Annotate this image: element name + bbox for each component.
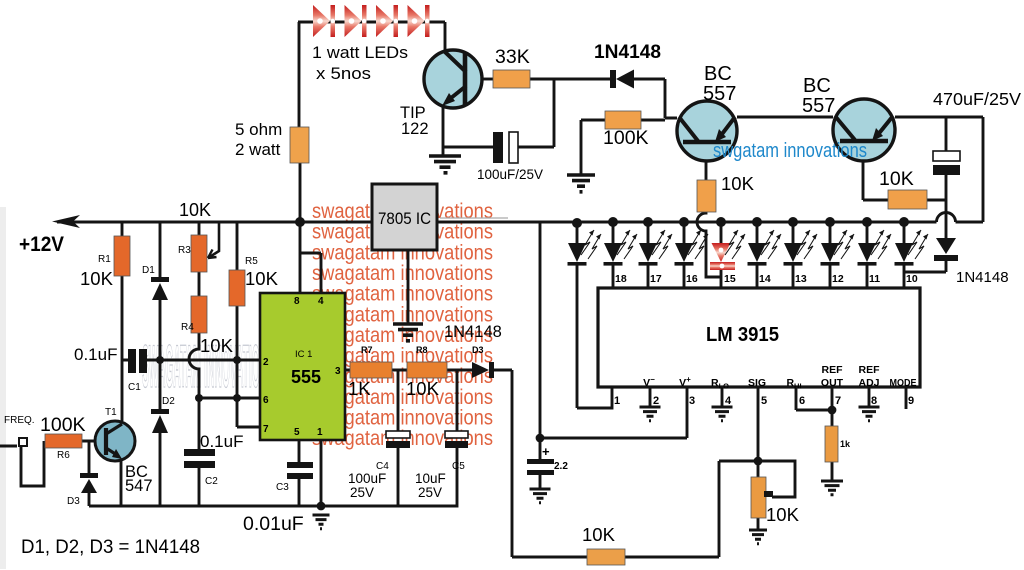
resistor 33K — [493, 70, 530, 88]
LED bar graph D18 — [568, 230, 602, 266]
wire TIP122 base to 33K — [482, 78, 493, 81]
svg-text:9: 9 — [908, 395, 914, 407]
svg-text:7805 IC: 7805 IC — [378, 209, 431, 228]
node ground rail junction — [317, 502, 326, 511]
IC1 555 timer — [260, 293, 345, 440]
svg-text:1N4148: 1N4148 — [444, 323, 502, 341]
capacitor C3 0.01uF — [287, 462, 313, 479]
svg-text:14: 14 — [759, 273, 771, 285]
LED bar graph pin17 — [639, 230, 673, 266]
svg-text:OUT: OUT — [821, 377, 844, 389]
svg-text:557: 557 — [802, 95, 835, 117]
svg-text:100uF: 100uF — [348, 471, 386, 486]
resistor R8 10K — [407, 362, 447, 378]
wire R7R8 junction to C4 — [397, 370, 400, 431]
svg-text:16: 16 — [686, 273, 698, 285]
svg-text:REF: REF — [859, 364, 881, 376]
node LED rail junctions — [572, 218, 582, 228]
svg-text:FREQ.: FREQ. — [4, 415, 35, 426]
wire 5ohm bottom — [299, 163, 302, 222]
LED string D-LED2 — [345, 5, 367, 37]
wire 555 pin1 down — [320, 440, 323, 506]
transistor TIP122 — [424, 50, 482, 108]
svg-text:R5: R5 — [245, 256, 258, 267]
wire C1 row to 555 pin2 — [147, 359, 260, 362]
capacitor C5 10uF — [445, 431, 468, 448]
LED string D-LED1 — [313, 5, 335, 37]
svg-text:R4: R4 — [181, 322, 194, 333]
stray underline artifact — [440, 217, 508, 219]
svg-text:REF: REF — [822, 364, 844, 376]
svg-text:6: 6 — [263, 395, 269, 406]
resistor 10K Q1 — [697, 180, 716, 212]
resistor R7 1K — [350, 362, 392, 378]
capacitor 470uF/25V — [933, 151, 960, 175]
svg-text:4: 4 — [318, 296, 324, 307]
LED bar graph pin15 red — [710, 230, 745, 270]
svg-text:C3: C3 — [276, 482, 289, 493]
svg-text:7: 7 — [835, 395, 841, 407]
svg-text:8: 8 — [294, 296, 300, 307]
svg-text:10K: 10K — [879, 168, 914, 190]
label LM3915 bottom pin numbers — [614, 395, 914, 407]
wire pin4 stub — [721, 387, 724, 407]
svg-text:10K: 10K — [80, 268, 114, 289]
svg-text:D3: D3 — [67, 496, 80, 507]
wire 7805 ground pin — [407, 250, 410, 323]
wire pin6 to pin7 — [796, 387, 832, 410]
LED bar graph D17 pin18 — [604, 230, 638, 266]
svg-text:10K: 10K — [721, 173, 755, 194]
svg-text:R1: R1 — [98, 254, 111, 265]
resistor R3 10K pot — [191, 235, 207, 272]
node C1 row R5 junction — [233, 356, 241, 364]
wire D1-D2 column — [159, 278, 162, 506]
LED bar graph pin16 — [675, 230, 709, 266]
wire TIP122 emitter to ground and 100uF — [443, 105, 493, 155]
wire pin8 stub — [868, 387, 871, 407]
svg-text:R7: R7 — [361, 345, 373, 355]
transistor Q2 BC557 — [833, 99, 895, 161]
wire bottom 10K to SIG node — [625, 461, 758, 557]
wire BC557 Q2 right to corner — [895, 117, 983, 222]
wire pin7 to 1k — [831, 387, 834, 481]
node LED anode rail — [437, 213, 983, 223]
pot wiper tab — [764, 491, 773, 497]
svg-text:10uF: 10uF — [415, 471, 446, 486]
wire R5 top — [236, 222, 239, 270]
svg-text:1: 1 — [317, 427, 323, 438]
node +12V rail wire — [57, 221, 372, 224]
wire R3 top — [198, 222, 201, 235]
svg-text:2: 2 — [653, 395, 659, 407]
svg-text:5 ohm: 5 ohm — [235, 120, 282, 139]
resistor 5ohm — [290, 127, 309, 163]
svg-text:557: 557 — [703, 83, 736, 105]
LED bar graph pin13 — [784, 230, 818, 266]
svg-text:100K: 100K — [40, 414, 86, 436]
svg-text:13: 13 — [795, 273, 807, 285]
svg-text:0.1uF: 0.1uF — [200, 432, 243, 451]
node C1 row D1 junction — [156, 356, 164, 364]
diode D1 — [151, 277, 169, 300]
wire pin1 to LED1 cathode — [577, 265, 612, 408]
wire BC557 Q1 base lead down — [705, 142, 708, 180]
wire D3 column — [88, 441, 91, 506]
svg-text:BC: BC — [803, 75, 831, 97]
svg-text:C1: C1 — [128, 382, 141, 393]
node V+ junction — [536, 434, 545, 443]
ground 7805 — [393, 324, 423, 341]
wire 100K top right — [641, 119, 665, 122]
svg-text:122: 122 — [401, 120, 429, 138]
node SIG junction — [754, 457, 763, 466]
svg-text:swgatam innovations: swgatam innovations — [713, 140, 867, 162]
svg-text:12: 12 — [832, 273, 844, 285]
diode D3 output 1N4148 — [472, 362, 494, 378]
WATERMARKS — [312, 200, 493, 450]
svg-text:2 watt: 2 watt — [235, 140, 281, 159]
ground 2.2uF — [530, 489, 551, 503]
svg-text:1: 1 — [614, 395, 620, 407]
svg-text:0.1uF: 0.1uF — [74, 345, 117, 364]
node +12V arrow — [52, 215, 80, 228]
svg-text:+12V: +12V — [19, 233, 64, 256]
svg-text:10K: 10K — [179, 200, 211, 220]
svg-text:x 5nos: x 5nos — [316, 65, 371, 83]
wire 470uF bottom through rail to 1N4148 — [945, 175, 948, 238]
svg-text:8: 8 — [871, 395, 877, 407]
svg-text:15: 15 — [724, 273, 736, 285]
capacitor 2.2uF — [527, 459, 554, 475]
LED bar graph pin10 — [895, 230, 929, 266]
wire R6 to BC547 base — [82, 440, 104, 443]
node ground rail bottom — [89, 448, 457, 506]
svg-text:5: 5 — [294, 427, 300, 438]
svg-text:4: 4 — [725, 395, 732, 407]
svg-text:6: 6 — [799, 395, 805, 407]
svg-text:10K: 10K — [245, 268, 279, 289]
svg-text:D3: D3 — [472, 345, 484, 355]
svg-text:T1: T1 — [105, 407, 117, 418]
svg-text:1K: 1K — [348, 378, 371, 399]
capacitor C1 0.1uF — [128, 349, 147, 373]
svg-text:BC: BC — [704, 63, 732, 85]
transistor T1 BC547 — [95, 421, 135, 461]
svg-text:10K: 10K — [582, 524, 616, 545]
wire FREQ input — [0, 445, 17, 448]
svg-text:D1, D2, D3 = 1N4148: D1, D2, D3 = 1N4148 — [21, 537, 200, 558]
wire pin5 SIG column — [757, 387, 760, 477]
pot R3 wiper arrow — [208, 250, 217, 259]
svg-text:547: 547 — [125, 477, 153, 495]
svg-text:470uF/25V: 470uF/25V — [933, 89, 1021, 109]
svg-text:R3: R3 — [178, 245, 191, 256]
svg-text:33K: 33K — [495, 46, 530, 68]
wire 100uF to 33K junction — [518, 79, 554, 147]
wire LED column stubs into IC — [613, 265, 904, 288]
transistor Q1 BC557 — [677, 101, 737, 161]
wire 1N4148 cathode to pin10 — [904, 261, 946, 272]
LED bar graph pin14 — [748, 230, 782, 266]
svg-text:5: 5 — [761, 395, 767, 407]
resistor 10K pot SIG — [751, 477, 766, 518]
LED string D-LED3 — [376, 5, 398, 37]
svg-text:ADJ: ADJ — [858, 377, 879, 389]
svg-text:10K: 10K — [766, 504, 800, 525]
wire V+ node column — [540, 222, 687, 459]
ground 555 pin1 — [313, 515, 330, 529]
label LM3915 top pin numbers — [615, 273, 918, 285]
svg-text:1k: 1k — [840, 439, 851, 449]
svg-text:25V: 25V — [350, 485, 374, 500]
wire R1 bottom to C1 node and BC547 collector — [122, 276, 128, 421]
resistor 10K bottom — [587, 549, 625, 565]
resistor R5 10K — [229, 270, 245, 306]
ground 1k — [821, 481, 843, 495]
diode D2 — [151, 409, 169, 433]
wire 33K to diode junction — [530, 78, 611, 81]
wire 5ohm top to LED string — [298, 22, 445, 130]
wire 555 pin8 pin4 supply — [300, 222, 321, 293]
svg-text:IC 1: IC 1 — [295, 349, 312, 360]
diode D3 — [80, 473, 98, 493]
svg-text:25V: 25V — [418, 485, 442, 500]
svg-text:11: 11 — [869, 273, 880, 285]
wire C3 column 555 pin5 — [298, 440, 301, 506]
svg-text:1N4148: 1N4148 — [956, 269, 1009, 286]
svg-text:100uF/25V: 100uF/25V — [477, 166, 544, 182]
wire C4 bottom — [397, 448, 400, 506]
label LM3915 pin names — [643, 364, 916, 391]
svg-text:18: 18 — [615, 273, 627, 285]
wire 470uF top tap — [945, 117, 948, 151]
svg-text:R6: R6 — [57, 450, 70, 461]
svg-text:C5: C5 — [452, 461, 465, 472]
wire R3-R4 link — [198, 272, 201, 296]
wire SIG wiper loop — [758, 461, 795, 497]
wire LED column stubs top — [577, 222, 904, 243]
LED bar graph pin11 — [858, 230, 892, 266]
wire BC557 Q1 to Q2 — [737, 116, 833, 119]
wire 100K top left to ground — [581, 120, 605, 174]
svg-text:MODE: MODE — [890, 377, 917, 389]
wire pin9 stub — [905, 387, 908, 409]
svg-text:0.01uF: 0.01uF — [243, 513, 304, 535]
ground 100K — [567, 175, 595, 192]
svg-text:100K: 100K — [603, 127, 649, 149]
wire BC547 emitter down — [120, 459, 123, 506]
svg-text:3: 3 — [335, 366, 341, 377]
resistor R6 100K — [45, 434, 82, 448]
wire C5 tap — [456, 370, 459, 431]
label 555 pins — [263, 296, 341, 438]
svg-text:2: 2 — [263, 357, 269, 368]
svg-text:1 watt LEDs: 1 watt LEDs — [312, 44, 408, 62]
resistor 100K top — [605, 111, 641, 129]
svg-text:SIG: SIG — [748, 377, 766, 389]
svg-text:17: 17 — [650, 273, 662, 285]
svg-text:C2: C2 — [205, 476, 218, 487]
svg-text:10K: 10K — [200, 335, 234, 356]
svg-text:swagatam innovations: swagatam innovations — [312, 262, 493, 285]
wire 2.2uF to ground — [539, 475, 542, 489]
wire R5 bottom to pin6 pin7 — [237, 306, 260, 427]
ground pot — [749, 530, 767, 544]
wire pot to ground — [757, 518, 760, 530]
wire pin2 stub — [649, 387, 652, 407]
node pin6 pin7 junction — [828, 406, 837, 415]
wire diode to BC557 base node — [634, 79, 677, 118]
svg-text:10: 10 — [906, 273, 918, 285]
svg-text:D1: D1 — [142, 265, 155, 276]
svg-text:555: 555 — [291, 367, 321, 387]
resistor R1 10K — [114, 236, 130, 276]
terminal FREQ square — [19, 438, 27, 446]
IC 7805 — [372, 184, 437, 250]
resistor 10K Q2 — [888, 190, 927, 209]
node pin6 row junctions — [195, 394, 203, 402]
wire R1 top — [121, 222, 124, 236]
capacitor C2 0.1uF — [184, 449, 215, 468]
diode 1N4148 top — [610, 70, 634, 89]
wire 10K Q1 hop over rail to pin15 — [697, 212, 721, 277]
ground TIP122 emitter — [429, 156, 461, 173]
wire D3 out down to bottom 10K — [493, 370, 587, 557]
LED bar graph pin12 — [821, 230, 855, 266]
wire D1 top — [159, 222, 162, 277]
wire 10K Q2 right — [927, 199, 946, 202]
wire R3 wiper tap — [208, 222, 219, 258]
diode 1N4148 right — [934, 238, 958, 261]
wire R4 bottom hop over C1 row — [189, 333, 199, 398]
ground pin8 — [859, 407, 880, 421]
wire BC557 Q2 base lead to 10K — [863, 141, 888, 200]
svg-text:2.2: 2.2 — [554, 461, 568, 472]
node 5ohm rail junction — [295, 217, 305, 227]
LED string D-LED4 — [408, 5, 430, 37]
svg-text:7: 7 — [263, 424, 269, 435]
ground pin4 — [712, 407, 733, 421]
capacitor 100uF/25V — [493, 132, 518, 163]
svg-text:+: + — [542, 444, 550, 459]
svg-text:10K: 10K — [406, 378, 440, 399]
capacitor C4 100uF — [386, 431, 410, 448]
resistor R4 — [191, 296, 207, 333]
wire square pulse to R6 — [21, 441, 44, 486]
wire pin6 row — [199, 397, 260, 400]
svg-text:3: 3 — [689, 395, 695, 407]
svg-text:D2: D2 — [162, 396, 175, 407]
svg-text:1N4148: 1N4148 — [594, 41, 661, 63]
wire 555 pin3 row — [345, 369, 472, 372]
svg-text:LM 3915: LM 3915 — [706, 324, 779, 346]
svg-text:R8: R8 — [416, 345, 428, 355]
resistor 1k pin7 — [825, 426, 838, 462]
IC U2 LM3915 — [598, 288, 920, 387]
ground pin2 — [640, 407, 661, 421]
wire C2 column — [198, 398, 201, 506]
